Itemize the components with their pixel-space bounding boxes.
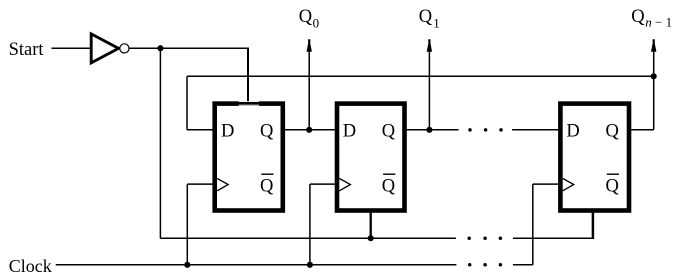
svg-text:Q: Q bbox=[260, 122, 274, 142]
svg-text:1: 1 bbox=[666, 14, 673, 29]
svg-text:1: 1 bbox=[433, 16, 440, 31]
svg-text:D: D bbox=[343, 122, 356, 142]
svg-text:Clock: Clock bbox=[9, 256, 52, 276]
svg-text:Q: Q bbox=[382, 122, 396, 142]
svg-text:Q: Q bbox=[419, 7, 433, 27]
svg-text:n: n bbox=[645, 14, 652, 29]
svg-text:Q: Q bbox=[606, 176, 620, 196]
svg-text:0: 0 bbox=[313, 15, 320, 30]
svg-text:D: D bbox=[566, 122, 579, 142]
svg-text:Q: Q bbox=[260, 176, 274, 196]
svg-text:Start: Start bbox=[9, 40, 45, 60]
svg-text:−: − bbox=[655, 14, 662, 29]
svg-text:Q: Q bbox=[382, 176, 396, 196]
svg-text:Q: Q bbox=[606, 122, 620, 142]
svg-text:Q: Q bbox=[631, 7, 645, 27]
svg-text:Q: Q bbox=[299, 7, 313, 27]
svg-text:D: D bbox=[221, 122, 234, 142]
